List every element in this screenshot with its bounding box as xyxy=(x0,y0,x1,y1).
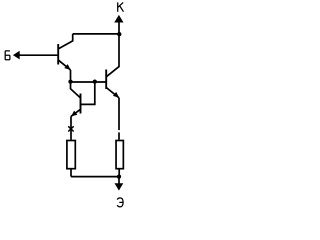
wire R2 bottom stub xyxy=(118,170,120,177)
transistor Q3 xyxy=(71,82,81,117)
transistor Q1 xyxy=(58,34,72,70)
wire Q1 emitter down to node xyxy=(70,70,72,82)
wire bottom horizontal xyxy=(71,176,119,178)
wire node1 to Q2 base xyxy=(71,81,107,83)
junction dot node 2 xyxy=(93,79,97,83)
wire Q2 emitter down lower segment xyxy=(118,132,120,139)
resistor R2 xyxy=(116,141,123,169)
wire base Б to Q1 xyxy=(20,54,58,56)
terminal label Б xyxy=(5,51,10,60)
junction dot node 1 xyxy=(68,79,72,83)
wire top horizontal xyxy=(73,33,120,35)
terminal arrow Э xyxy=(115,183,124,190)
wire node2 down to Q3 base xyxy=(81,82,95,105)
junction dot collector node xyxy=(117,32,121,36)
wire R1 bottom stub xyxy=(70,170,72,177)
transistor Q2 xyxy=(106,34,119,98)
x marker on emitter wire xyxy=(68,126,74,131)
terminal label Э xyxy=(117,198,123,207)
terminal label К xyxy=(118,2,124,11)
resistor R1 xyxy=(67,141,75,169)
junction dot emitter node xyxy=(117,174,121,178)
terminal arrow Б xyxy=(13,51,20,60)
wire Q2 emitter down upper segment xyxy=(118,98,120,130)
wire Q3 emitter down to R1 xyxy=(70,116,72,140)
wire К stem xyxy=(118,22,120,34)
terminal arrow К xyxy=(114,15,123,23)
wire Э stem xyxy=(118,177,120,184)
